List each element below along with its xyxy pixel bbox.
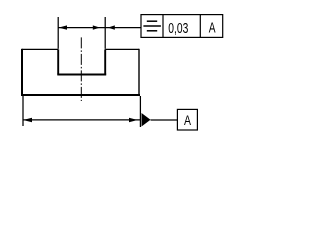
svg-text:A: A: [209, 21, 216, 37]
svg-text:A: A: [184, 112, 191, 128]
svg-text:0,03: 0,03: [168, 21, 188, 37]
